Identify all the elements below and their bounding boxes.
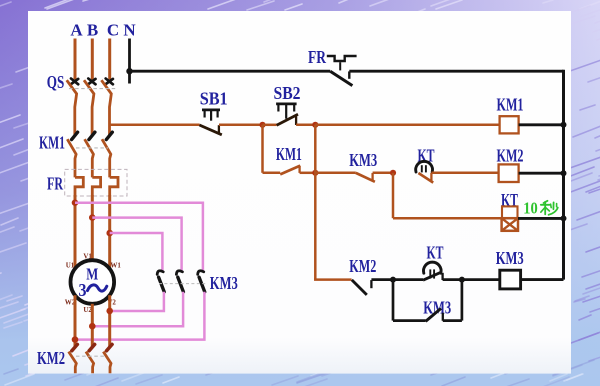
coil KM3 — [500, 270, 521, 289]
wire U2 stub — [91, 304, 94, 348]
svg-text:KM1: KM1 — [497, 95, 524, 115]
contactor KM1 main label — [39, 133, 65, 153]
contact KT NC delay arc — [416, 161, 433, 172]
svg-text:V1: V1 — [83, 252, 92, 260]
contact KM3 NC blade — [356, 173, 375, 182]
junction row2 at vertical — [312, 170, 318, 176]
switch QS pole A pivot mark — [71, 79, 78, 85]
svg-text:KM3: KM3 — [349, 150, 377, 170]
wire phase A drop — [74, 39, 77, 80]
svg-text:KM3: KM3 — [496, 248, 524, 268]
contact KT NO delay arc — [423, 262, 441, 278]
wire row2 KM3 to junction — [373, 172, 393, 175]
svg-text:M: M — [86, 264, 98, 283]
wire row4 to KM3 coil — [462, 278, 500, 281]
svg-text:KM3: KM3 — [423, 298, 451, 318]
svg-text:10: 10 — [523, 199, 538, 218]
node C phase label — [107, 20, 119, 39]
wire row1 SB2 to junction — [296, 124, 315, 127]
wire KM2 coil to rail — [519, 172, 564, 175]
wire row2 to KM3 contact — [315, 172, 356, 175]
svg-text:KT: KT — [427, 243, 444, 263]
svg-text:FR: FR — [308, 47, 327, 67]
wire pink right contact to W2 — [75, 292, 204, 340]
thermal contact FR right tick — [348, 71, 350, 78]
coil KM1 — [500, 116, 519, 133]
motor terminal V1 — [83, 252, 92, 260]
svg-text:QS: QS — [47, 72, 65, 92]
thermal contact FR blade — [330, 71, 352, 85]
contactor KM2 pole B blade — [86, 352, 94, 374]
wire KT coil to rail — [518, 217, 564, 220]
wire row2 to crossing — [300, 172, 316, 175]
svg-text:KM2: KM2 — [37, 348, 65, 368]
overload FR label — [47, 173, 64, 193]
contactor KM1 pole B blade — [85, 139, 94, 177]
junction rail row2 — [561, 170, 567, 176]
wire phase B drop — [91, 39, 94, 80]
svg-text:U1: U1 — [66, 261, 75, 269]
motor label M — [86, 264, 98, 283]
junction row1 after SB2 — [312, 122, 318, 128]
svg-text:FR: FR — [47, 173, 64, 193]
contactor KM3 star label — [210, 273, 238, 293]
svg-text:SB2: SB2 — [274, 83, 301, 103]
svg-text:W1: W1 — [110, 261, 121, 269]
node N phase label — [123, 20, 136, 39]
contactor KM1 linkage dashed — [76, 147, 108, 149]
thermal contact FR label — [308, 47, 327, 67]
motor terminal W1 — [110, 261, 121, 269]
junction phase C star tap — [106, 230, 113, 237]
svg-text:KM2: KM2 — [349, 256, 376, 276]
contact KT NC blade — [418, 173, 433, 183]
pushbutton SB2 NO blade — [277, 114, 298, 125]
wire W2 stub — [74, 295, 77, 347]
wire control row from phase C — [110, 124, 200, 127]
relay coil KT upper box — [502, 206, 518, 218]
wire branch down to KT coil — [392, 173, 395, 218]
pushbutton SB2 head — [276, 104, 297, 119]
motor label 3-phase — [79, 280, 107, 300]
wire selfhold bottom right — [443, 319, 462, 322]
pushbutton SB1 head — [202, 110, 220, 121]
overload FR heater A — [75, 177, 83, 195]
wire phase A to motor — [74, 195, 77, 269]
node A phase label — [70, 20, 83, 39]
contactor KM3 star left blade — [159, 277, 165, 292]
motor terminal V2 — [107, 299, 116, 307]
wire KM1 coil to rail — [519, 123, 564, 126]
wire KT coil row — [393, 217, 502, 220]
coil KM2 — [499, 164, 519, 182]
switch QS pole A blade — [67, 80, 77, 135]
motor terminal U1 — [66, 261, 75, 269]
contactor KM2 linkage dashed — [76, 355, 106, 357]
svg-text:B: B — [87, 20, 98, 39]
switch QS pole C pivot mark — [106, 79, 113, 85]
wire row1 junction to SB2 — [263, 124, 277, 127]
svg-text:A: A — [70, 20, 83, 39]
wire selfhold up — [461, 280, 464, 321]
contactor KM1 pole A blade — [67, 139, 76, 177]
pushbutton SB2 label — [274, 83, 301, 103]
wire row1 to KM1 coil — [315, 124, 499, 127]
contact KM3 selfhold label — [423, 298, 451, 318]
contact KM1 selfhold NO blade — [280, 166, 300, 175]
wire pink middle contact to U2 — [92, 292, 183, 326]
node B phase label — [87, 20, 98, 39]
contactor KM3 star middle hook — [176, 271, 182, 275]
coil KM1 label — [497, 95, 524, 115]
junction N rail — [126, 68, 132, 74]
svg-text:N: N — [123, 20, 136, 39]
switch QS pole C blade — [101, 80, 111, 135]
contactor KM1 pole A pivot mark — [72, 132, 78, 139]
contactor KM2 pole C pivot mark — [107, 344, 113, 350]
contactor KM1 pole C blade — [102, 139, 111, 177]
relay coil KT label — [501, 190, 518, 210]
contactor KM3 star right blade — [199, 277, 205, 292]
wire selfhold down — [392, 280, 395, 321]
wire N rail right segment — [349, 70, 563, 73]
svg-text:KM2: KM2 — [497, 145, 524, 165]
motor terminal W2 — [65, 299, 76, 307]
contactor KM2 pole C blade — [103, 352, 111, 374]
wire V2 stub — [108, 295, 111, 347]
junction row4 before coil — [459, 277, 465, 283]
wire pink B to middle star contact — [92, 218, 181, 271]
junction rail KT row — [561, 215, 567, 221]
wire phase B to motor — [91, 195, 94, 260]
junction row4 selfhold — [390, 277, 396, 283]
overload FR dashed box — [65, 169, 127, 196]
contact KT NO blade — [423, 272, 443, 280]
junction phase A star tap — [72, 199, 79, 206]
contactor KM3 star middle blade — [178, 277, 184, 292]
thermal contact FR actuator — [327, 56, 357, 70]
junction phase B star tap — [89, 214, 96, 221]
wire N drop — [128, 39, 131, 84]
contactor KM2 pole A pivot mark — [72, 344, 78, 350]
contact KM3 NC label — [349, 150, 377, 170]
wire row1 SB1 to junction — [219, 124, 263, 127]
svg-text:KM3: KM3 — [210, 273, 238, 293]
wire row4 KM2 to junction — [371, 278, 393, 281]
contact KM2 NO blade — [352, 280, 372, 295]
wire row4 KT to junction2 — [443, 278, 462, 281]
wire row4 left corner — [315, 278, 351, 279]
coil KM2 label — [497, 145, 524, 165]
contactor KM2 pole B pivot mark — [89, 344, 95, 350]
wire N rail left segment — [130, 70, 331, 73]
contact KM2 label — [349, 256, 376, 276]
contactor KM2 pole A blade — [69, 352, 77, 374]
wire phase C to motor — [108, 195, 111, 269]
contact KT NO label — [427, 243, 444, 263]
wire row4 junction to KT — [393, 278, 423, 281]
wire pink left contact to V2 — [110, 292, 164, 311]
wire row2 left — [263, 172, 281, 175]
contact KM1 selfhold label — [276, 144, 302, 164]
svg-text:3: 3 — [79, 280, 87, 300]
contact KM3 selfhold NO blade — [426, 308, 443, 321]
wire vertical after SB2 down — [314, 125, 317, 280]
junction row1 before SB2 — [259, 122, 265, 128]
wire pink C to left star contact — [110, 233, 163, 271]
junction U2 pink — [89, 323, 96, 330]
motor terminal U2 — [83, 306, 92, 314]
coil KM3 label — [496, 248, 524, 268]
junction row2 KT branch — [390, 170, 396, 176]
wire branch down before SB2 — [261, 125, 264, 173]
label 10 seconds — [523, 199, 558, 218]
wire row2 KT to KM2 coil — [431, 172, 498, 175]
switch QS linkage dashed — [69, 88, 117, 90]
contactor KM3 star linkage dashed — [159, 283, 206, 285]
pushbutton SB1 label — [200, 88, 228, 108]
contactor KM1 pole C pivot mark — [106, 132, 112, 139]
switch QS pole B blade — [84, 80, 94, 135]
contact KT NC label — [418, 145, 435, 165]
svg-text:C: C — [107, 20, 119, 39]
wire phase C drop — [108, 39, 111, 80]
svg-text:KM1: KM1 — [276, 144, 302, 164]
switch QS label — [47, 72, 65, 92]
svg-text:SB1: SB1 — [200, 88, 228, 108]
relay coil KT lower box with X — [502, 218, 518, 231]
wire KM3 coil to rail — [521, 278, 564, 281]
overload FR heater C — [110, 177, 118, 195]
svg-text:KM1: KM1 — [39, 133, 65, 153]
junction V2 pink — [106, 308, 113, 315]
junction W2 pink — [72, 336, 79, 343]
pushbutton SB1 NC blade — [199, 125, 221, 135]
wire pink A to right star contact — [75, 203, 203, 271]
motor M circle — [71, 260, 115, 304]
switch QS pole B pivot mark — [88, 79, 95, 85]
contactor KM3 star left hook — [157, 271, 163, 275]
wire selfhold bottom left — [393, 319, 426, 322]
overload FR heater B — [92, 177, 100, 195]
contactor KM2 main label — [37, 348, 65, 368]
contactor KM3 star right hook — [198, 271, 204, 275]
junction rail row1 — [561, 122, 567, 128]
contactor KM1 pole B pivot mark — [89, 132, 95, 139]
wire right rail vertical — [562, 70, 565, 280]
